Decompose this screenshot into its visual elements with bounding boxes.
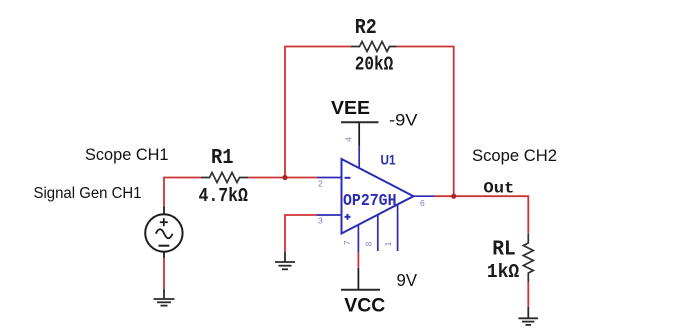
pin 3 stub — [317, 214, 342, 216]
wire feedback top from node A up and across to output branch — [285, 47, 454, 197]
svg-text:8: 8 — [364, 241, 374, 246]
svg-text:Scope CH2: Scope CH2 — [472, 147, 557, 165]
svg-text:Signal Gen CH1: Signal Gen CH1 — [34, 185, 142, 202]
wire input from source to R1 — [164, 178, 201, 207]
minus mark — [159, 245, 170, 247]
svg-text:-9V: -9V — [389, 111, 418, 130]
wire source to ground — [163, 252, 165, 289]
svg-text:VCC: VCC — [344, 296, 385, 317]
junction output node — [451, 194, 456, 199]
VCC supply symbol — [341, 268, 380, 290]
junction node A — [282, 175, 287, 180]
svg-text:VEE: VEE — [331, 97, 370, 118]
svg-text:Out: Out — [483, 180, 514, 198]
svg-text:20kΩ: 20kΩ — [355, 54, 394, 76]
pin 2 stub — [317, 177, 342, 179]
plus mark — [160, 218, 168, 226]
ground (load) — [519, 307, 539, 325]
sine symbol — [156, 229, 173, 238]
svg-text:4.7kΩ: 4.7kΩ — [198, 185, 248, 207]
minus mark — [345, 177, 351, 179]
pin 8 stub — [377, 215, 379, 251]
svg-text:OP27GH: OP27GH — [343, 191, 397, 210]
resistor R1 — [201, 173, 248, 183]
resistor R2 — [351, 42, 397, 52]
wire op-amp non-inverting input to ground — [285, 215, 317, 252]
ground (non-inverting input) — [275, 252, 295, 269]
wire RL to ground — [527, 282, 529, 307]
svg-text:R1: R1 — [211, 147, 234, 170]
svg-text:4: 4 — [344, 137, 354, 142]
svg-text:1: 1 — [383, 241, 393, 246]
svg-text:3: 3 — [318, 216, 323, 226]
svg-text:2: 2 — [318, 179, 323, 189]
VEE supply symbol — [341, 122, 379, 145]
pin 4 stub — [358, 146, 360, 169]
svg-text:6: 6 — [420, 198, 425, 208]
source V1 signal generator — [145, 207, 182, 252]
svg-text:RL: RL — [492, 239, 516, 262]
resistor RL — [523, 234, 533, 282]
svg-text:9V: 9V — [397, 270, 418, 290]
svg-text:1kΩ: 1kΩ — [487, 261, 520, 283]
wire pin 7 to VCC — [357, 253, 359, 268]
ground (source) — [154, 289, 175, 306]
pin 6 stub — [414, 195, 435, 197]
pin 7 stub — [357, 225, 359, 253]
svg-text:7: 7 — [342, 240, 352, 245]
wire R1 to op-amp inverting input — [248, 177, 317, 179]
op-amp U1 — [317, 137, 434, 253]
pin 1 stub — [397, 204, 399, 251]
plus mark — [345, 214, 351, 220]
svg-text:Scope CH1: Scope CH1 — [85, 146, 169, 164]
wire output pin6 to node Out and down to RL — [434, 196, 528, 234]
triangle body — [342, 159, 414, 234]
svg-text:R2: R2 — [355, 17, 377, 40]
svg-text:U1: U1 — [381, 153, 396, 168]
